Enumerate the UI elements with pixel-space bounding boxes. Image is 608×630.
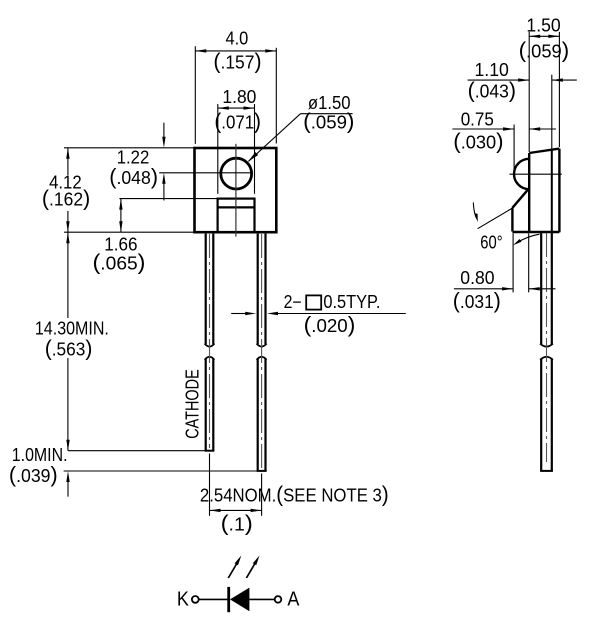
- dimension 0.80 (.031) shelf depth: [453, 234, 556, 314]
- svg-text:(.1): (.1): [221, 510, 253, 535]
- die window inner rectangle: [218, 199, 255, 233]
- svg-text:2.54NOM.(SEE NOTE 3): 2.54NOM.(SEE NOTE 3): [200, 481, 389, 506]
- svg-text:0.80: 0.80: [460, 268, 494, 288]
- svg-text:CATHODE: CATHODE: [183, 369, 203, 439]
- lens dome, side view: [514, 159, 529, 189]
- svg-text:(.031): (.031): [453, 288, 501, 313]
- CATHODE label: [183, 369, 203, 439]
- LED symbol D1: [229, 587, 250, 612]
- node A: [275, 588, 300, 610]
- svg-text:(.048): (.048): [109, 164, 158, 189]
- anode lead, front view: [257, 234, 267, 471]
- svg-text:(.162): (.162): [42, 185, 90, 210]
- svg-text:(.563): (.563): [45, 335, 93, 360]
- dimension 1.10 (.043) lead setback: [468, 60, 577, 150]
- dimension 2.54NOM. (.1) lead pitch: [200, 454, 389, 536]
- svg-text:1.80: 1.80: [222, 87, 256, 107]
- dimension ø1.50 (.059) lens diameter with leader: [248, 93, 355, 162]
- svg-text:(.065): (.065): [93, 250, 146, 275]
- dimension 14.30MIN. (.563) lead length: [35, 232, 109, 451]
- svg-text:1.66: 1.66: [104, 234, 137, 254]
- svg-text:1.0MIN.: 1.0MIN.: [12, 445, 68, 465]
- light emission arrow 2: [246, 556, 259, 579]
- svg-text:2−: 2−: [284, 292, 302, 312]
- dimension 4.0 (.157) body width: [195, 29, 276, 144]
- lens circle, front view: [221, 158, 252, 189]
- dimension 1.50 (.059) body depth: [519, 16, 570, 152]
- cathode lead centerline: [209, 234, 211, 448]
- svg-text:(.071): (.071): [214, 109, 261, 134]
- svg-text:0.5TYP.: 0.5TYP.: [323, 292, 380, 312]
- svg-text:(.030): (.030): [453, 129, 503, 154]
- svg-text:(.039): (.039): [9, 462, 58, 487]
- LED package body, side view: [512, 149, 559, 233]
- dimension 1.22 (.048) lens center from top: [64, 123, 252, 201]
- lens axis centerline, side view: [510, 173, 562, 175]
- svg-text:1.10: 1.10: [475, 60, 509, 80]
- dimension 2-square 0.5TYP. (.020) lead width: [231, 292, 406, 337]
- side lead centerline: [546, 233, 548, 462]
- anode lead centerline: [261, 234, 263, 468]
- dimension 0.75 (.030) lens protrusion: [452, 110, 556, 172]
- dimension 1.80 (.071) window width: [214, 87, 261, 194]
- svg-text:4.0: 4.0: [226, 29, 249, 49]
- wire anode: [249, 598, 274, 600]
- LED package body, front view: [195, 148, 277, 232]
- svg-text:1.22: 1.22: [117, 148, 150, 168]
- svg-text:(.059): (.059): [303, 108, 354, 133]
- wire cathode: [199, 598, 228, 600]
- cathode lead, front view: [205, 234, 215, 451]
- dimension 60 degree chamfer angle: [473, 203, 539, 253]
- svg-text:A: A: [287, 588, 300, 610]
- dimension 1.0MIN. (.039) lead end offset: [9, 445, 267, 497]
- chamfer edge and lower-left shelf, side view: [512, 190, 527, 232]
- node K: [177, 588, 199, 610]
- svg-text:60°: 60°: [480, 232, 502, 252]
- svg-text:(.043): (.043): [468, 78, 516, 103]
- svg-text:1.50: 1.50: [526, 16, 560, 36]
- dimension 4.12 (.162) body height: [42, 148, 195, 232]
- dimension 1.66 (.065) window top from body bottom: [93, 199, 218, 275]
- svg-text:(.157): (.157): [213, 49, 261, 74]
- lead, side view: [540, 232, 553, 471]
- svg-text:(.059): (.059): [519, 37, 570, 62]
- svg-text:K: K: [177, 588, 190, 610]
- package vertical centerline: [235, 144, 237, 237]
- svg-text:0.75: 0.75: [461, 110, 494, 130]
- light emission arrow 1: [228, 556, 241, 579]
- svg-text:ø1.50: ø1.50: [308, 93, 351, 113]
- svg-text:(.020): (.020): [304, 312, 356, 337]
